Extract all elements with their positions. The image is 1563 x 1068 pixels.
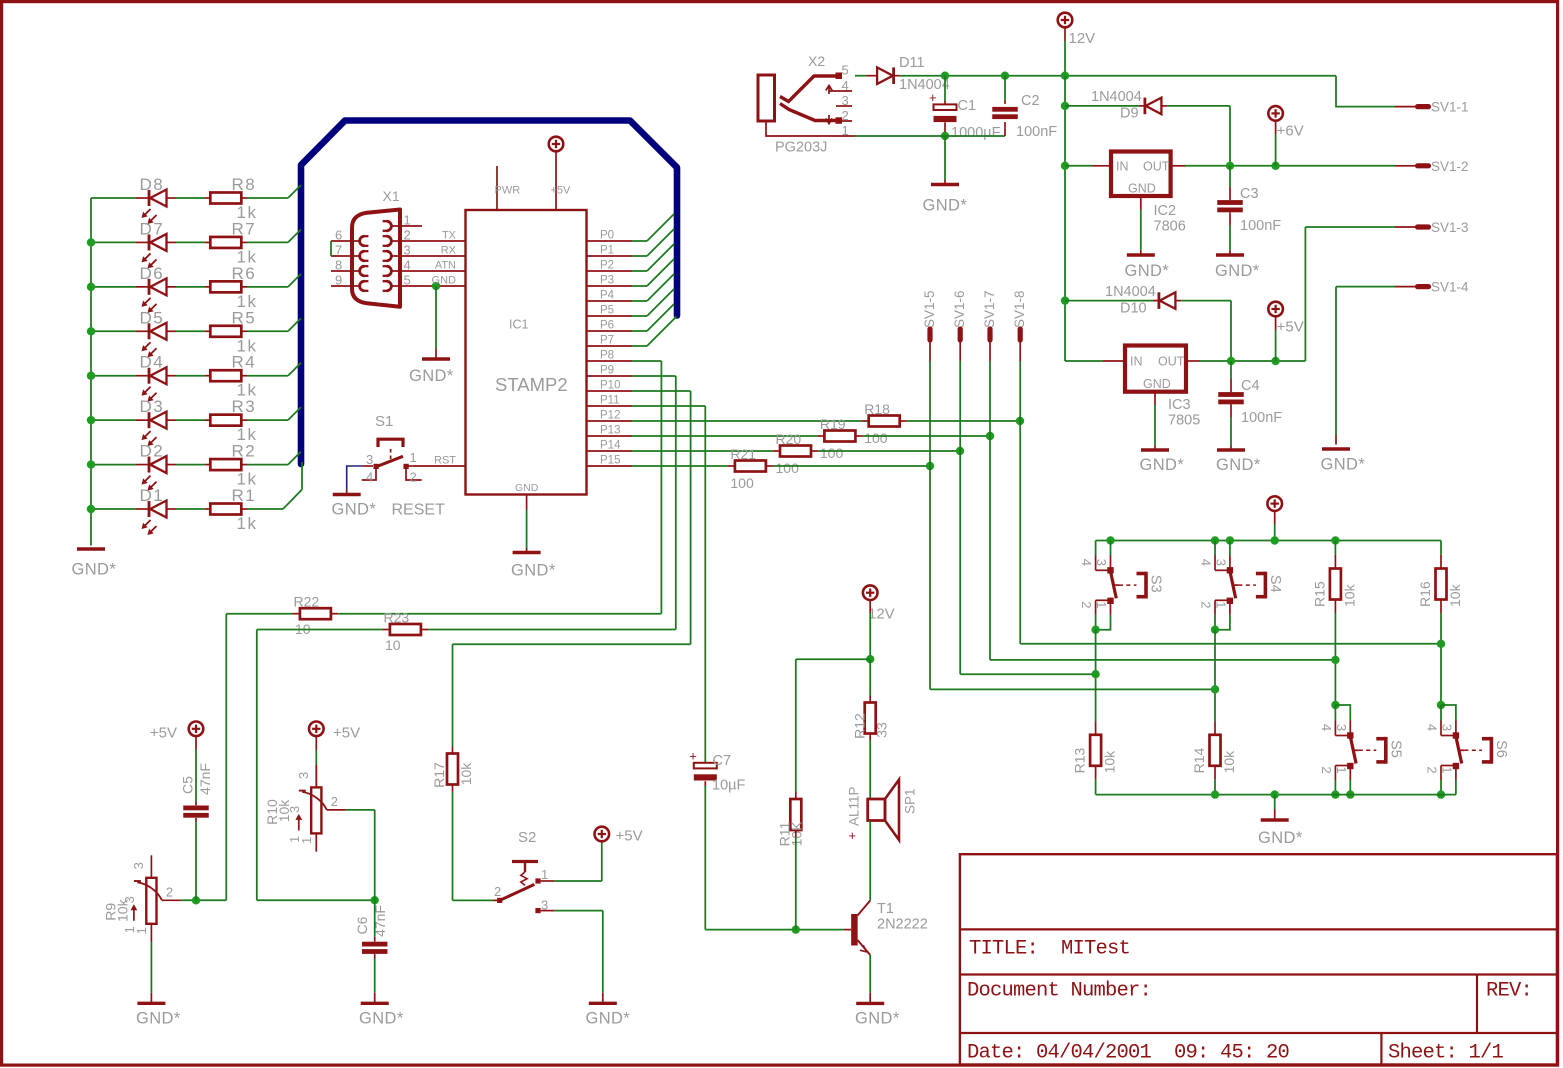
svg-text:SV1-2: SV1-2: [1431, 159, 1469, 174]
svg-text:3: 3: [1334, 724, 1349, 731]
svg-text:R23: R23: [384, 610, 410, 626]
svg-text:R19: R19: [820, 416, 846, 432]
svg-text:D10: D10: [1120, 301, 1147, 317]
svg-text:2: 2: [166, 884, 173, 899]
svg-text:3: 3: [1094, 559, 1109, 566]
svg-text:P12: P12: [600, 410, 620, 422]
svg-text:S4: S4: [1267, 575, 1283, 593]
svg-text:D8: D8: [140, 175, 165, 194]
svg-text:GND*: GND*: [1215, 262, 1260, 280]
svg-text:R4: R4: [232, 353, 257, 372]
svg-text:3: 3: [131, 862, 146, 869]
svg-text:OUT: OUT: [1158, 355, 1185, 369]
svg-text:GND*: GND*: [1258, 829, 1303, 847]
svg-text:47nF: 47nF: [197, 763, 213, 795]
svg-text:P1: P1: [600, 245, 614, 257]
svg-text:10k: 10k: [1447, 583, 1463, 607]
svg-text:2: 2: [410, 470, 417, 485]
svg-text:4: 4: [842, 78, 849, 93]
svg-text:GND*: GND*: [359, 1010, 404, 1028]
svg-text:R5: R5: [232, 308, 257, 327]
svg-text:S3: S3: [1148, 575, 1164, 593]
svg-text:R18: R18: [864, 401, 890, 417]
svg-text:100: 100: [864, 430, 888, 446]
svg-text:1: 1: [1094, 601, 1109, 608]
svg-text:1: 1: [410, 450, 417, 465]
svg-text:10k: 10k: [114, 898, 130, 922]
svg-text:X2: X2: [808, 53, 825, 69]
svg-text:D6: D6: [140, 264, 165, 283]
svg-text:SV1-3: SV1-3: [1431, 220, 1469, 235]
svg-text:C6: C6: [354, 916, 370, 934]
svg-text:R7: R7: [232, 219, 257, 238]
svg-text:Date: 04/04/2001 09: 45: 20: Date: 04/04/2001 09: 45: 20: [967, 1042, 1290, 1065]
svg-text:2: 2: [404, 228, 411, 243]
svg-text:5: 5: [404, 273, 411, 288]
svg-text:R6: R6: [232, 264, 257, 283]
svg-text:D4: D4: [140, 353, 165, 372]
svg-text:1000µF: 1000µF: [951, 125, 1001, 141]
svg-text:R1: R1: [232, 486, 257, 505]
svg-text:GND*: GND*: [855, 1010, 900, 1028]
svg-text:GND*: GND*: [511, 562, 556, 580]
svg-text:7: 7: [335, 243, 342, 258]
svg-text:SV1-5: SV1-5: [922, 290, 937, 328]
svg-text:RST: RST: [434, 455, 456, 467]
svg-text:1k: 1k: [237, 514, 258, 533]
svg-text:R21: R21: [730, 446, 756, 462]
svg-text:3: 3: [842, 93, 849, 108]
svg-text:3: 3: [1213, 559, 1228, 566]
svg-text:R22: R22: [294, 594, 320, 610]
svg-text:1: 1: [541, 867, 548, 882]
svg-text:R2: R2: [232, 442, 257, 461]
svg-text:6: 6: [335, 228, 342, 243]
svg-text:100nF: 100nF: [1016, 124, 1057, 140]
svg-text:GND*: GND*: [72, 561, 117, 579]
svg-text:P2: P2: [600, 260, 614, 272]
svg-text:4: 4: [1079, 559, 1094, 566]
svg-text:10µF: 10µF: [712, 778, 745, 794]
svg-text:100: 100: [776, 460, 800, 476]
svg-text:IC2: IC2: [1154, 203, 1177, 219]
svg-text:R14: R14: [1191, 748, 1207, 774]
svg-text:P15: P15: [600, 455, 620, 467]
svg-text:GND*: GND*: [923, 197, 968, 215]
svg-text:47nF: 47nF: [372, 905, 388, 937]
svg-text:GND*: GND*: [1321, 456, 1366, 474]
svg-text:P3: P3: [600, 275, 614, 287]
svg-text:R8: R8: [232, 175, 257, 194]
svg-text:D5: D5: [140, 308, 165, 327]
svg-text:R17: R17: [431, 762, 447, 788]
svg-text:C3: C3: [1240, 186, 1259, 202]
svg-text:T1: T1: [877, 901, 894, 917]
svg-text:2: 2: [494, 884, 501, 899]
svg-text:GND*: GND*: [136, 1010, 181, 1028]
svg-text:100nF: 100nF: [1241, 410, 1282, 426]
svg-text:2: 2: [331, 794, 338, 809]
svg-text:D2: D2: [140, 442, 165, 461]
svg-text:SV1-6: SV1-6: [952, 290, 967, 328]
svg-text:1N4004: 1N4004: [1105, 284, 1156, 300]
svg-text:GND*: GND*: [1140, 456, 1185, 474]
svg-text:3: 3: [1439, 724, 1454, 731]
svg-text:2N2222: 2N2222: [877, 917, 928, 933]
svg-text:7806: 7806: [1154, 219, 1186, 235]
svg-text:10k: 10k: [1102, 750, 1118, 774]
svg-text:S2: S2: [518, 829, 536, 846]
svg-text:10k: 10k: [1221, 750, 1237, 774]
svg-text:33: 33: [874, 722, 890, 738]
svg-text:10k: 10k: [276, 799, 292, 823]
svg-text:R12: R12: [852, 713, 868, 739]
svg-text:S5: S5: [1387, 740, 1403, 758]
svg-text:R20: R20: [776, 431, 802, 447]
svg-text:IC1: IC1: [509, 318, 529, 332]
svg-text:1: 1: [1334, 766, 1349, 773]
svg-text:GND*: GND*: [332, 501, 377, 519]
svg-text:+6V: +6V: [1277, 123, 1304, 140]
svg-text:3: 3: [296, 772, 311, 779]
svg-text:4: 4: [1199, 559, 1214, 566]
svg-text:P10: P10: [600, 380, 620, 392]
svg-text:P9: P9: [600, 365, 614, 377]
svg-text:10: 10: [385, 637, 401, 653]
svg-text:+5V: +5V: [1277, 319, 1304, 336]
svg-text:4: 4: [404, 258, 411, 273]
svg-text:IC3: IC3: [1168, 397, 1191, 413]
svg-text:1: 1: [299, 837, 314, 844]
svg-text:2: 2: [842, 108, 849, 123]
svg-text:+5V: +5V: [616, 828, 643, 845]
svg-text:12V: 12V: [868, 606, 895, 623]
svg-text:P11: P11: [600, 395, 620, 407]
svg-text:C5: C5: [180, 776, 196, 794]
svg-text:P6: P6: [600, 320, 614, 332]
svg-text:9: 9: [335, 273, 342, 288]
svg-text:10k: 10k: [458, 762, 474, 786]
svg-text:GND: GND: [1143, 377, 1171, 391]
svg-text:P8: P8: [600, 350, 614, 362]
svg-text:4: 4: [366, 470, 373, 485]
svg-text:1N4004: 1N4004: [899, 77, 950, 93]
svg-text:TX: TX: [442, 230, 457, 242]
svg-text:ATN: ATN: [435, 260, 456, 272]
svg-text:R15: R15: [1311, 581, 1327, 607]
svg-text:IN: IN: [1130, 355, 1143, 369]
svg-text:PWR: PWR: [495, 185, 521, 197]
svg-text:+: +: [929, 90, 937, 105]
svg-text:10k: 10k: [1341, 583, 1357, 607]
svg-text:TITLE: MITest: TITLE: MITest: [969, 938, 1130, 961]
svg-text:P0: P0: [600, 230, 614, 242]
svg-text:D3: D3: [140, 397, 165, 416]
svg-text:100: 100: [820, 445, 844, 461]
svg-text:REV:: REV:: [1486, 980, 1532, 1003]
svg-text:D11: D11: [899, 55, 925, 71]
svg-text:S6: S6: [1493, 740, 1509, 758]
svg-text:1N4004: 1N4004: [1091, 89, 1142, 105]
svg-text:C4: C4: [1241, 378, 1260, 394]
svg-text:R16: R16: [1417, 581, 1433, 607]
svg-text:2: 2: [1079, 601, 1094, 608]
svg-text:GND*: GND*: [1125, 262, 1170, 280]
svg-text:C7: C7: [713, 753, 732, 769]
svg-text:AL11P: AL11P: [847, 786, 862, 826]
svg-text:X1: X1: [383, 188, 400, 204]
svg-text:1: 1: [1439, 766, 1454, 773]
svg-text:P7: P7: [600, 335, 614, 347]
svg-text:SV1-7: SV1-7: [982, 290, 997, 328]
svg-text:RX: RX: [441, 245, 457, 257]
svg-text:R3: R3: [232, 397, 257, 416]
svg-text:4: 4: [1425, 724, 1440, 731]
svg-text:+5V: +5V: [333, 725, 360, 742]
svg-text:OUT: OUT: [1143, 160, 1170, 174]
svg-text:4: 4: [1319, 724, 1334, 731]
svg-text:SP1: SP1: [903, 788, 918, 814]
svg-text:Document Number:: Document Number:: [967, 980, 1151, 1003]
svg-text:R13: R13: [1072, 748, 1088, 774]
svg-text:+: +: [849, 828, 857, 843]
svg-text:2: 2: [1319, 766, 1334, 773]
svg-text:1: 1: [1213, 601, 1228, 608]
svg-text:D1: D1: [140, 486, 165, 505]
svg-text:IN: IN: [1116, 160, 1129, 174]
svg-text:RESET: RESET: [392, 502, 446, 519]
svg-text:P13: P13: [600, 425, 620, 437]
svg-text:P5: P5: [600, 305, 614, 317]
svg-text:D7: D7: [140, 219, 165, 238]
svg-text:GND*: GND*: [1216, 456, 1261, 474]
svg-text:100: 100: [730, 475, 754, 491]
svg-text:3: 3: [404, 243, 411, 258]
svg-text:P14: P14: [600, 440, 621, 452]
svg-text:GND: GND: [515, 482, 539, 494]
svg-text:GND*: GND*: [586, 1010, 631, 1028]
svg-text:GND: GND: [1128, 182, 1156, 196]
svg-text:SV1-4: SV1-4: [1431, 280, 1469, 295]
svg-text:100nF: 100nF: [1240, 218, 1281, 234]
svg-text:S1: S1: [375, 413, 393, 430]
svg-text:GND: GND: [432, 275, 457, 287]
svg-text:PG203J: PG203J: [775, 140, 827, 156]
svg-text:C2: C2: [1021, 93, 1040, 109]
svg-text:C1: C1: [958, 98, 977, 114]
svg-text:D9: D9: [1120, 106, 1139, 122]
svg-text:2: 2: [1199, 601, 1214, 608]
svg-text:7805: 7805: [1168, 413, 1200, 429]
svg-text:1: 1: [134, 927, 149, 934]
svg-text:P4: P4: [600, 290, 615, 302]
svg-text:+: +: [689, 748, 697, 763]
svg-text:+5V: +5V: [551, 185, 572, 197]
svg-text:Sheet: 1/1: Sheet: 1/1: [1388, 1042, 1504, 1065]
svg-text:3: 3: [366, 452, 373, 467]
svg-text:GND*: GND*: [409, 367, 454, 385]
svg-text:STAMP2: STAMP2: [495, 374, 568, 395]
svg-text:2: 2: [1425, 766, 1440, 773]
svg-text:+5V: +5V: [150, 725, 177, 742]
svg-text:12V: 12V: [1069, 30, 1096, 47]
svg-text:1: 1: [404, 213, 411, 228]
svg-text:SV1-1: SV1-1: [1431, 100, 1469, 115]
svg-text:SV1-8: SV1-8: [1012, 290, 1027, 328]
svg-text:8: 8: [335, 258, 342, 273]
svg-text:5: 5: [842, 63, 849, 78]
